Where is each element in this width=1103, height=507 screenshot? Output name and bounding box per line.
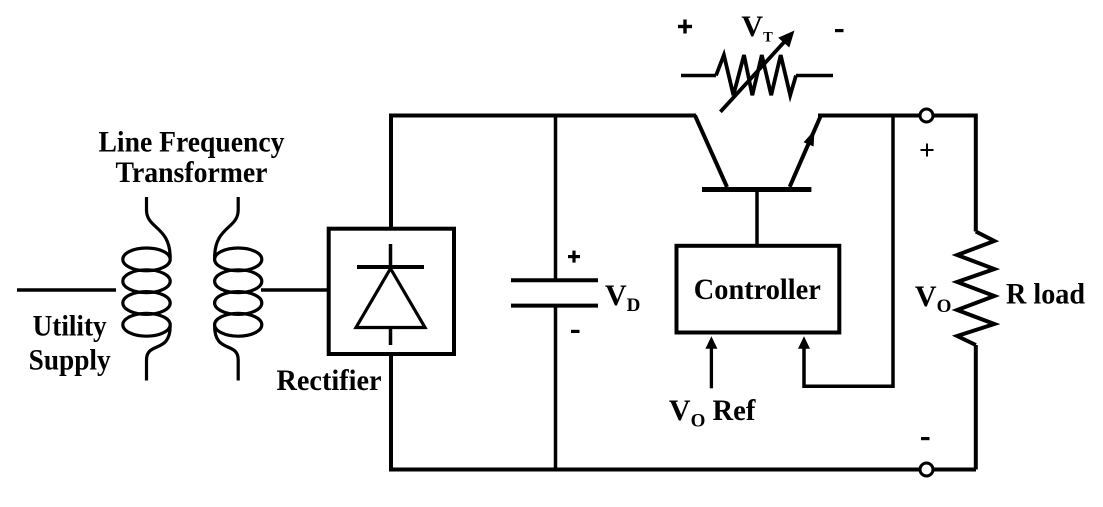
svg-text:Supply: Supply (29, 344, 111, 377)
svg-text:Rectifier: Rectifier (277, 364, 382, 397)
svg-text:R load: R load (1006, 277, 1085, 310)
svg-text:Controller: Controller (694, 273, 821, 306)
svg-text:VO Ref: VO Ref (669, 394, 756, 432)
svg-text:Utility: Utility (33, 310, 107, 343)
svg-text:Line Frequency: Line Frequency (99, 126, 285, 159)
svg-text:Transformer: Transformer (116, 156, 268, 189)
